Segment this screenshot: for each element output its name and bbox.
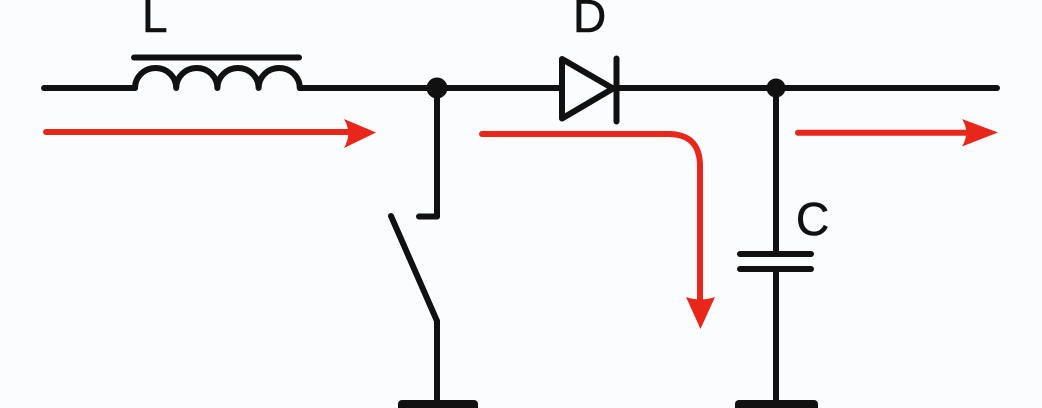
svg-text:C: C — [796, 193, 829, 245]
svg-text:D: D — [573, 0, 606, 42]
svg-text:L: L — [142, 0, 168, 42]
